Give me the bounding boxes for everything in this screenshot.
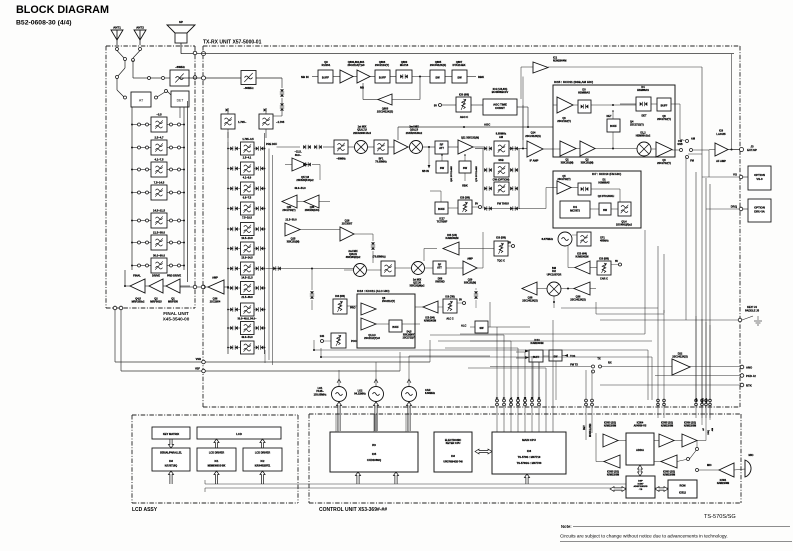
- svg-text:2SC2712(Y): 2SC2712(Y): [630, 124, 644, 127]
- svg-text:~1.705: ~1.705: [276, 120, 285, 124]
- svg-text:IC7 : KCD10 (FM HIC): IC7 : KCD10 (FM HIC): [592, 172, 621, 176]
- svg-text:2SK520(K44)x2: 2SK520(K44)x2: [296, 179, 314, 182]
- svg-text:DRU-3A: DRU-3A: [754, 210, 765, 214]
- svg-text:21.5~38.0: 21.5~38.0: [153, 230, 166, 234]
- svg-text:LA4445: LA4445: [716, 132, 726, 136]
- svg-text:IC567: IC567: [638, 483, 645, 485]
- svg-text:ATT: ATT: [439, 146, 444, 150]
- svg-text:ATT: ATT: [437, 267, 442, 270]
- svg-text:NJM2904M: NJM2904M: [531, 342, 544, 345]
- svg-text:455kHz: 455kHz: [600, 240, 609, 243]
- svg-text:NB IN: NB IN: [301, 75, 309, 79]
- svg-text:2SC2412K(S): 2SC2412K(S): [525, 135, 541, 138]
- svg-text:~60MHz: ~60MHz: [336, 158, 346, 161]
- svg-text:R1/2S1: R1/2S1: [322, 63, 331, 67]
- svg-text:MIC: MIC: [707, 464, 712, 467]
- svg-text:VSF: VSF: [195, 367, 200, 371]
- svg-text:MC3372: MC3372: [570, 208, 580, 212]
- svg-text:1.705~: 1.705~: [238, 120, 247, 124]
- svg-text:84.22MHz: 84.22MHz: [354, 393, 366, 396]
- svg-text:BUFF: BUFF: [322, 76, 330, 80]
- svg-text:SW: SW: [603, 209, 608, 212]
- svg-text:RBK: RBK: [478, 75, 484, 79]
- svg-text:CONST: CONST: [495, 106, 505, 110]
- svg-text:IC512: IC512: [679, 491, 686, 495]
- svg-text:IC3: IC3: [451, 455, 456, 458]
- svg-text:BU4066BCFV: BU4066BCFV: [492, 90, 509, 94]
- svg-text:Q11 3SK131(M): Q11 3SK131(M): [461, 137, 479, 140]
- svg-text:BUFF: BUFF: [533, 356, 540, 359]
- svg-text:3SK131(M): 3SK131(M): [581, 162, 594, 165]
- svg-text:2SK520(K44): 2SK520(K44): [305, 209, 320, 212]
- svg-text:KEYER CPU: KEYER CPU: [446, 442, 461, 445]
- svg-text:4.1~7.5: 4.1~7.5: [154, 157, 164, 161]
- svg-text:IC6 (5/8): IC6 (5/8): [496, 237, 506, 240]
- svg-text:Circuits are subject to change: Circuits are subject to change without n…: [560, 534, 728, 539]
- svg-text:ANO: ANO: [746, 366, 753, 370]
- svg-text:MODULAND: MODULAND: [589, 423, 592, 437]
- svg-text:LCD: LCD: [236, 432, 242, 436]
- svg-text:5V: 5V: [475, 203, 478, 206]
- svg-text:IC6 (7/8): IC6 (7/8): [445, 296, 455, 299]
- svg-text:2SC2954: 2SC2954: [210, 301, 221, 304]
- svg-text:5V: 5V: [459, 299, 462, 302]
- svg-text:NJU3718Q: NJU3718Q: [165, 465, 178, 468]
- svg-text:ADSP2181KS: ADSP2181KS: [634, 485, 649, 488]
- svg-text:~60MHz: ~60MHz: [175, 65, 185, 69]
- svg-text:IC16 : KCC11 (ALC HIC): IC16 : KCC11 (ALC HIC): [357, 289, 389, 293]
- svg-text:MRF255x2: MRF255x2: [132, 300, 145, 304]
- svg-text:TQC C: TQC C: [497, 260, 505, 263]
- svg-text:RX: RX: [608, 361, 612, 365]
- svg-text:HSM88AS: HSM88AS: [637, 89, 649, 92]
- svg-text:D4,5: D4,5: [407, 331, 413, 334]
- svg-text:Q75 DTC114EK: Q75 DTC114EK: [475, 166, 478, 182]
- svg-text:2SC2412K(S): 2SC2412K(S): [522, 300, 538, 303]
- svg-text:NJM2902M: NJM2902M: [576, 256, 589, 259]
- svg-text:RNT58D: RNT58D: [435, 281, 445, 284]
- svg-text:2.5~4.7: 2.5~4.7: [154, 135, 164, 139]
- svg-text:NJM2902M: NJM2902M: [446, 237, 459, 240]
- svg-text:3SK184(R)x2: 3SK184(R)x2: [346, 256, 361, 259]
- svg-text:ANO: ANO: [705, 398, 708, 403]
- svg-text:FINAL: FINAL: [133, 274, 141, 278]
- svg-text:SERIAL/PARALLEL: SERIAL/PARALLEL: [160, 452, 183, 455]
- svg-text:NJU6432BFE1: NJU6432BFE1: [255, 465, 271, 468]
- svg-text:3SK131(M)x2: 3SK131(M)x2: [410, 285, 426, 288]
- svg-text:SW: SW: [457, 76, 462, 80]
- svg-text:POC: POC: [351, 340, 357, 343]
- svg-text:DRIVE: DRIVE: [152, 274, 160, 278]
- svg-text:NJM2100M: NJM2100M: [604, 425, 616, 428]
- svg-text:IC8 (3/8): IC8 (3/8): [460, 197, 470, 200]
- svg-text:2SC2712(Y): 2SC2712(Y): [557, 178, 570, 181]
- svg-text:PRO: PRO: [350, 307, 355, 310]
- svg-text:3SK131(M): 3SK131(M): [287, 241, 300, 244]
- svg-text:RF: RF: [440, 143, 444, 147]
- svg-text:SP: SP: [179, 20, 183, 24]
- svg-text:IC1: IC1: [573, 205, 578, 209]
- svg-text:BUFF: BUFF: [610, 125, 617, 128]
- svg-text:AM: AM: [711, 428, 714, 432]
- svg-text:TS-570SG : M37733: TS-570SG : M37733: [517, 461, 542, 465]
- svg-text:3SK131(M): 3SK131(M): [464, 282, 476, 285]
- svg-text:IC6 (6/6): IC6 (6/6): [335, 295, 345, 298]
- svg-text:HSM88ASx2: HSM88ASx2: [636, 135, 651, 138]
- svg-text:2SC2712(Y): 2SC2712(Y): [657, 118, 671, 121]
- svg-text:2SC4081(R)x2: 2SC4081(R)x2: [616, 224, 633, 227]
- svg-text:2SK3200K44x4: 2SK3200K44x4: [353, 132, 371, 135]
- svg-text:2SC2114(Y)x3: 2SC2114(Y)x3: [347, 63, 365, 67]
- svg-text:TS-570S : M37710: TS-570S : M37710: [518, 455, 541, 459]
- svg-text:14.5~21.5: 14.5~21.5: [241, 277, 253, 280]
- svg-text:ALC C: ALC C: [446, 318, 454, 321]
- svg-text:14S: 14S: [320, 335, 325, 338]
- svg-text:2SC2712(Y): 2SC2712(Y): [657, 162, 671, 165]
- svg-text:DET: DET: [607, 115, 612, 118]
- svg-text:8.375MHz: 8.375MHz: [542, 238, 554, 241]
- svg-text:2SK520K40x2: 2SK520K40x2: [406, 132, 423, 135]
- svg-text:NJM2100M: NJM2100M: [663, 474, 675, 477]
- svg-text:NJM2100M: NJM2100M: [684, 425, 696, 428]
- svg-text:AGC C: AGC C: [460, 115, 468, 119]
- svg-text:SW: SW: [435, 76, 440, 80]
- svg-text:5V: 5V: [434, 104, 437, 108]
- svg-text:IC15 : KCD11 (SSB,AM HIC): IC15 : KCD11 (SSB,AM HIC): [554, 80, 593, 84]
- svg-text:~60MHz: ~60MHz: [243, 86, 254, 90]
- svg-text:7.5~14.5: 7.5~14.5: [154, 180, 165, 184]
- svg-text:NJM2100M: NJM2100M: [661, 425, 673, 428]
- svg-text:SW: SW: [479, 327, 484, 330]
- svg-text:ADDA: ADDA: [636, 448, 644, 452]
- svg-text:LCD DRIVER: LCD DRIVER: [255, 452, 270, 455]
- svg-text:10.5~13.8: 10.5~13.8: [241, 237, 253, 240]
- svg-text:AM: AM: [691, 138, 695, 141]
- svg-text:SSB: SSB: [677, 143, 682, 146]
- svg-text:MRF550: MRF550: [168, 300, 179, 304]
- svg-text:Q52 DTC114EK: Q52 DTC114EK: [450, 166, 453, 182]
- svg-text:2SC2114(Y): 2SC2114(Y): [375, 63, 389, 67]
- svg-text:NJM2904M: NJM2904M: [553, 59, 566, 63]
- svg-text:21.5~30.0: 21.5~30.0: [285, 219, 297, 222]
- svg-text:FM TX: FM TX: [570, 363, 578, 367]
- svg-text:FINAL UNIT: FINAL UNIT: [163, 311, 189, 316]
- svg-text:8.83MHz: 8.83MHz: [425, 392, 436, 395]
- svg-text:49.0~54.0: 49.0~54.0: [241, 336, 253, 339]
- svg-text:DSP: DSP: [638, 481, 643, 483]
- svg-text:73.05MHz: 73.05MHz: [375, 161, 387, 164]
- svg-text:2SC2712(Y): 2SC2712(Y): [403, 337, 416, 339]
- svg-text:IC9: IC9: [719, 129, 724, 133]
- svg-text:DTA114EK: DTA114EK: [453, 63, 466, 67]
- svg-text:DRQ: DRQ: [731, 205, 738, 209]
- svg-text:B52-0608-30 (4/4): B52-0608-30 (4/4): [16, 20, 72, 27]
- svg-text:EXT.SP: EXT.SP: [747, 148, 757, 152]
- svg-text:30.0~: 30.0~: [295, 154, 302, 157]
- svg-text:NJM2100M: NJM2100M: [717, 482, 729, 485]
- svg-text:BUFF: BUFF: [379, 76, 387, 80]
- svg-text:ANT1: ANT1: [113, 26, 121, 30]
- svg-text:UPD78064GB-746: UPD78064GB-746: [443, 461, 463, 464]
- svg-text:5V: 5V: [508, 242, 511, 245]
- svg-text:NJM2902M: NJM2902M: [424, 320, 436, 323]
- svg-text:CXD1089Q: CXD1089Q: [367, 458, 382, 462]
- svg-text:2SC2112(Y): 2SC2112(Y): [557, 120, 571, 123]
- svg-text:PRE DFF: PRE DFF: [266, 142, 278, 146]
- svg-text:HSM88AS: HSM88AS: [578, 92, 590, 95]
- svg-text:2SC2412K(S): 2SC2412K(S): [672, 356, 688, 359]
- svg-text:CONTROL UNIT X53-369#-##: CONTROL UNIT X53-369#-##: [319, 507, 387, 513]
- svg-text:PKD J2: PKD J2: [746, 374, 756, 378]
- svg-text:(73.05MHz): (73.05MHz): [372, 256, 385, 259]
- svg-text:IC6: IC6: [527, 449, 532, 453]
- svg-text:49.0~54.0: 49.0~54.0: [294, 187, 306, 190]
- svg-text:2SC2714(Y): 2SC2714(Y): [282, 209, 295, 212]
- svg-text:TS-570S/SG: TS-570S/SG: [704, 514, 736, 520]
- svg-text:DET: DET: [177, 99, 184, 103]
- svg-text:21.5~38.0: 21.5~38.0: [241, 296, 253, 299]
- svg-text:LCD ASSY: LCD ASSY: [132, 507, 158, 513]
- svg-text:7.5~10.5: 7.5~10.5: [242, 217, 252, 220]
- svg-text:SSB: SSB: [498, 158, 503, 162]
- svg-text:AK4506-VS: AK4506-VS: [634, 425, 647, 428]
- svg-text:30.0~60.0: 30.0~60.0: [153, 253, 166, 257]
- svg-text:2SC3357: 2SC3357: [342, 223, 353, 226]
- svg-text:KEY MATRIX: KEY MATRIX: [163, 432, 180, 436]
- svg-text:13.9~14.5: 13.9~14.5: [241, 257, 253, 260]
- svg-text:NJM2100M: NJM2100M: [607, 474, 619, 477]
- svg-text:FM THRU: FM THRU: [497, 202, 509, 206]
- svg-text:ALC: ALC: [461, 324, 466, 328]
- svg-text:~3.5: ~3.5: [156, 112, 162, 116]
- svg-text:RBK: RBK: [462, 184, 468, 188]
- svg-text:BUFF: BUFF: [661, 105, 668, 108]
- svg-text:MAIN CPU: MAIN CPU: [522, 438, 536, 442]
- svg-text:NB IN: NB IN: [422, 170, 429, 173]
- svg-text:2.5~4.1: 2.5~4.1: [243, 157, 252, 160]
- svg-text:AGC: AGC: [484, 123, 490, 127]
- svg-text:AMP: AMP: [467, 258, 473, 261]
- svg-text:3SK131(M): 3SK131(M): [561, 162, 574, 165]
- svg-text:2SC2412K(S): 2SC2412K(S): [570, 299, 586, 302]
- svg-text:AF AMP: AF AMP: [716, 159, 726, 163]
- svg-text:CW (OPTION): CW (OPTION): [493, 178, 510, 182]
- svg-text:VSR: VSR: [196, 357, 201, 361]
- svg-text:NB: NB: [360, 86, 364, 90]
- svg-text:IC3: IC3: [169, 460, 174, 463]
- svg-text:IC6 (8/8): IC6 (8/8): [599, 258, 609, 261]
- svg-text:FM: FM: [690, 160, 694, 163]
- svg-text:HSM88AS: HSM88AS: [598, 182, 610, 185]
- svg-text:IF AMP: IF AMP: [530, 159, 539, 163]
- svg-text:2SC3412K(S): 2SC3412K(S): [430, 63, 446, 67]
- svg-text:RTK: RTK: [746, 384, 752, 388]
- svg-text:CAR C: CAR C: [600, 278, 608, 281]
- svg-text:30.0~49.6, 54.0~: 30.0~49.6, 54.0~: [238, 318, 257, 321]
- svg-text:SW: SW: [440, 166, 445, 170]
- svg-text:MSM6366GS-BK: MSM6366GS-BK: [208, 466, 226, 468]
- svg-text:1.705~3.5: 1.705~3.5: [242, 138, 254, 141]
- svg-text:AM: AM: [499, 135, 503, 139]
- svg-text:PRE-DRIVE: PRE-DRIVE: [167, 274, 181, 278]
- svg-text:TCS: TCS: [570, 354, 575, 358]
- svg-text:IC2: IC2: [261, 460, 266, 463]
- svg-text:ANT2: ANT2: [136, 26, 144, 30]
- svg-text:2SC2112(Y): 2SC2112(Y): [382, 300, 395, 303]
- svg-text:TX-RX UNIT X57-5000-01: TX-RX UNIT X57-5000-01: [203, 40, 262, 46]
- svg-text:TC75S8F: TC75S8F: [437, 221, 448, 224]
- svg-text:2SC2412K(S): 2SC2412K(S): [377, 110, 393, 114]
- svg-text:BUFF: BUFF: [392, 326, 399, 329]
- svg-text:14.5~21.5: 14.5~21.5: [153, 208, 166, 212]
- svg-text:MRF5615: MRF5615: [150, 300, 162, 304]
- svg-text:BUFF: BUFF: [438, 208, 445, 211]
- svg-text:IC5: IC5: [372, 452, 377, 456]
- svg-text:IC8 (6/6): IC8 (6/6): [459, 93, 469, 97]
- svg-text:DRQ: DRQ: [708, 430, 710, 435]
- svg-text:UPC1037GR: UPC1037GR: [547, 273, 562, 276]
- svg-text:IC1: IC1: [215, 460, 220, 463]
- svg-text:Note:: Note:: [561, 524, 572, 529]
- svg-text:AMP: AMP: [212, 276, 218, 280]
- svg-text:DET: DET: [642, 115, 647, 118]
- svg-text:MA716: MA716: [400, 63, 409, 67]
- svg-text:5V: 5V: [615, 260, 618, 263]
- svg-text:ROM: ROM: [679, 484, 685, 488]
- svg-text:2SC2112(Y)x3: 2SC2112(Y)x3: [364, 337, 380, 340]
- svg-text:LCD DRIVER: LCD DRIVER: [209, 452, 224, 455]
- svg-text:BLOCK DIAGRAM: BLOCK DIAGRAM: [16, 4, 109, 16]
- svg-text:DET: DET: [584, 425, 586, 430]
- svg-text:PADDLE J5: PADDLE J5: [745, 308, 760, 312]
- svg-text:MIC: MIC: [749, 453, 754, 457]
- svg-text:6.6~7.5: 6.6~7.5: [243, 197, 252, 200]
- svg-text:AM: AM: [695, 398, 698, 402]
- svg-text:X45-3540-00: X45-3540-00: [163, 317, 190, 322]
- svg-text:3SK29(WY): 3SK29(WY): [403, 334, 415, 336]
- svg-text:VS-3: VS-3: [756, 177, 763, 181]
- svg-text:8.83MHz: 8.83MHz: [496, 132, 507, 136]
- svg-text:133.05MHz: 133.05MHz: [314, 393, 328, 396]
- svg-text:SW: SW: [463, 166, 468, 170]
- svg-text:Q2 DTC143XLI: Q2 DTC143XLI: [598, 195, 615, 198]
- svg-text:4.1~6.9: 4.1~6.9: [243, 177, 252, 180]
